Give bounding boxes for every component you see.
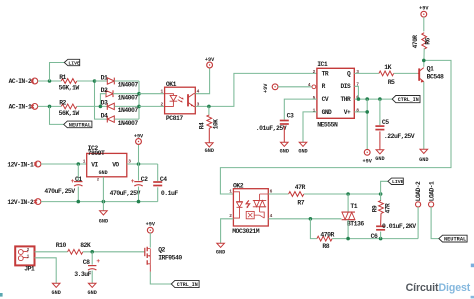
wire 12V-IN-1 to IC2 xyxy=(41,163,87,165)
ic IC1 NE555N xyxy=(317,68,354,118)
wire DIS to THR xyxy=(354,86,358,99)
flag NEUTRAL right xyxy=(439,235,467,242)
wire LOAD-1 to NEUTRAL xyxy=(431,207,439,239)
svg-text:JP1: JP1 xyxy=(24,265,35,272)
wire C8 to GND xyxy=(91,271,93,284)
svg-text:5: 5 xyxy=(313,95,316,101)
svg-text:NE555N: NE555N xyxy=(317,122,338,129)
svg-text:470uF,25V: 470uF,25V xyxy=(110,190,141,197)
ground below C3 xyxy=(281,142,289,146)
svg-text:AC-IN-1: AC-IN-1 xyxy=(9,104,32,111)
svg-text:CTRL_IN: CTRL_IN xyxy=(398,97,419,103)
capacitor C4 xyxy=(157,164,159,181)
capacitor C1 xyxy=(77,164,79,181)
node R4 junction xyxy=(207,105,211,109)
svg-text:3: 3 xyxy=(356,69,359,75)
node LIVE junction xyxy=(48,79,52,83)
svg-text:D2: D2 xyxy=(101,87,108,94)
svg-text:THR: THR xyxy=(340,96,350,103)
wire to +9V xyxy=(138,144,140,164)
flag NEUTRAL xyxy=(64,121,92,128)
wire R5 to Q1 base xyxy=(394,72,418,74)
wire OK2 pin6 to R7 xyxy=(268,193,288,195)
svg-text:+9V: +9V xyxy=(419,5,429,11)
diode D3 xyxy=(107,103,114,109)
svg-text:1: 1 xyxy=(83,159,86,165)
svg-text:C2: C2 xyxy=(141,176,148,183)
svg-text:3.3uF: 3.3uF xyxy=(74,271,91,278)
svg-text:OK1: OK1 xyxy=(166,81,177,88)
wire JP1 pin2 to R10 xyxy=(35,251,68,253)
svg-text:R8: R8 xyxy=(322,243,329,250)
svg-text:1N4007: 1N4007 xyxy=(118,107,139,114)
svg-text:470R: 470R xyxy=(320,232,334,239)
svg-text:1: 1 xyxy=(229,188,232,194)
svg-text:T1: T1 xyxy=(350,203,357,210)
wire junction to R4 xyxy=(208,106,210,114)
wire Q output to R5 xyxy=(354,72,379,74)
node NEUTRAL junction xyxy=(48,105,52,109)
wire C6 to rail xyxy=(380,232,382,239)
supply +9V above IC2 xyxy=(136,139,142,145)
svg-text:C1: C1 xyxy=(75,176,82,183)
wire OK2 pin4 / gate row xyxy=(268,218,341,220)
svg-text:1N4007: 1N4007 xyxy=(118,82,139,89)
svg-text:GND: GND xyxy=(99,170,108,176)
wire D1 cathode to right rail xyxy=(114,80,139,82)
wire LOAD-2 down xyxy=(417,207,419,239)
wire R4 to GND xyxy=(208,128,210,143)
wire down to R8 xyxy=(310,219,316,239)
wire AC-IN-1 to R2 xyxy=(38,105,62,107)
svg-text:VO: VO xyxy=(112,161,119,168)
flag LIVE xyxy=(64,59,79,65)
frame corner mark xyxy=(0,293,3,297)
wire left bridge rail xyxy=(95,81,108,119)
wire to LIVE flag xyxy=(50,63,65,82)
svg-text:+9V: +9V xyxy=(134,133,144,139)
node collector xyxy=(422,59,426,63)
svg-text:MOC3021M: MOC3021M xyxy=(232,228,260,235)
svg-text:1: 1 xyxy=(160,89,163,95)
resistor R6 xyxy=(422,33,427,49)
svg-text:V+: V+ xyxy=(344,109,351,116)
wire R2 to bridge xyxy=(77,105,108,107)
wire bridge to OK1 pin2 xyxy=(139,105,165,107)
svg-text:GND: GND xyxy=(88,290,97,296)
svg-text:R5: R5 xyxy=(388,79,395,86)
triac T1 BT136 xyxy=(342,212,355,220)
opto OK2 MOC3021M xyxy=(233,189,268,226)
ground below IC1 xyxy=(299,142,307,146)
edge mark bottom right xyxy=(471,296,474,299)
svg-text:IC1: IC1 xyxy=(317,61,328,68)
wire to mid ground xyxy=(102,202,104,211)
svg-text:LOAD-1: LOAD-1 xyxy=(428,181,435,201)
svg-text:56K,1W: 56K,1W xyxy=(59,110,80,117)
svg-text:IRF9540: IRF9540 xyxy=(158,254,182,261)
ground below C5 xyxy=(376,150,384,154)
ground below C8 xyxy=(88,283,96,287)
svg-text:NEUTRAL: NEUTRAL xyxy=(69,122,91,128)
wire C3 to GND xyxy=(283,126,285,142)
svg-text:D4: D4 xyxy=(101,112,108,119)
svg-text:470uF,25V: 470uF,25V xyxy=(44,188,75,195)
ground below JP1 xyxy=(52,283,60,287)
wire IC2 GND pin down xyxy=(102,177,104,202)
wire AC-IN-2 to R1 xyxy=(38,80,62,82)
svg-text:10K: 10K xyxy=(212,119,219,129)
resistor R9 xyxy=(380,194,382,200)
wire D3 to right rail xyxy=(114,105,139,107)
svg-text:R9: R9 xyxy=(371,205,378,212)
wire IC1 GND pin xyxy=(303,112,317,142)
svg-text:470R: 470R xyxy=(412,35,419,49)
svg-text:GND: GND xyxy=(99,219,108,225)
svg-text:BC548: BC548 xyxy=(427,74,444,81)
resistor R4 xyxy=(207,115,212,128)
wire emitter to GND xyxy=(423,82,425,150)
svg-text:7809T: 7809T xyxy=(88,150,105,157)
wire bottom rail 12V xyxy=(41,201,158,203)
svg-text:56K,1W: 56K,1W xyxy=(59,85,80,92)
wire Q1 collector to OK2 pin1 xyxy=(220,60,451,194)
wire to LIVE flag xyxy=(381,181,388,194)
wire JP1 pin1 to GND xyxy=(35,258,57,283)
svg-text:C3: C3 xyxy=(287,113,294,120)
svg-text:LOAD-2: LOAD-2 xyxy=(415,181,422,201)
wire V+ to +9V xyxy=(354,111,367,113)
svg-text:TR: TR xyxy=(322,70,329,77)
flag CTRL_IN bottom xyxy=(171,280,199,287)
wire right bridge rail xyxy=(138,81,140,119)
capacitor C6 xyxy=(380,213,382,225)
svg-text:1N4007: 1N4007 xyxy=(118,120,139,127)
svg-text:82K: 82K xyxy=(80,242,91,249)
reset bubble xyxy=(312,85,316,89)
wire OK2 pin2 to GND xyxy=(221,219,234,243)
flag CTRL_IN xyxy=(392,96,420,103)
svg-text:12V-IN-1: 12V-IN-1 xyxy=(7,161,34,168)
ground below Q1 xyxy=(420,149,428,153)
ground below IC2 xyxy=(100,211,108,215)
svg-text:D1: D1 xyxy=(101,74,108,81)
svg-text:2: 2 xyxy=(160,101,163,107)
svg-text:0.1uF: 0.1uF xyxy=(161,190,178,197)
svg-text:47R: 47R xyxy=(385,203,392,213)
supply +9V top right xyxy=(421,11,427,17)
svg-text:47R: 47R xyxy=(295,184,306,191)
wire T1 MT1 xyxy=(347,220,349,239)
ic IC2 7809T xyxy=(87,153,127,176)
wire D1 anode xyxy=(95,80,108,82)
wire OK1 pin4 to +9V xyxy=(195,68,209,94)
svg-text:C6: C6 xyxy=(371,233,378,240)
resistor R5 xyxy=(379,71,394,76)
svg-text:C4: C4 xyxy=(160,176,167,183)
svg-text:DIS: DIS xyxy=(340,83,350,90)
wire THR row to CTRL_IN xyxy=(354,98,392,100)
svg-text:GND: GND xyxy=(322,109,332,116)
svg-text:+9V: +9V xyxy=(205,57,215,63)
svg-text:1K: 1K xyxy=(384,64,391,71)
svg-text:R1: R1 xyxy=(59,74,66,81)
svg-text:GND: GND xyxy=(280,149,289,155)
connector JP1 xyxy=(15,246,34,265)
capacitor C3 xyxy=(280,120,289,122)
wire T1 MT2 xyxy=(347,194,349,212)
wire D4 to right rail xyxy=(114,118,139,120)
svg-text:2: 2 xyxy=(313,69,316,75)
svg-text:Q1: Q1 xyxy=(427,65,434,72)
resistor R7 xyxy=(289,192,304,197)
wire R8 to load rail xyxy=(332,238,418,240)
svg-text:GND: GND xyxy=(298,149,307,155)
svg-text:LIVE: LIVE xyxy=(68,60,80,66)
svg-text:1: 1 xyxy=(27,253,30,259)
wire R1 to bridge xyxy=(77,80,95,82)
supply +9V below IC1 xyxy=(364,149,370,155)
supply +9V to reset pin xyxy=(272,84,278,90)
capacitor C8 xyxy=(91,252,93,265)
svg-text:AC-IN-2: AC-IN-2 xyxy=(9,78,32,85)
svg-text:R7: R7 xyxy=(297,200,304,207)
svg-text:PC817: PC817 xyxy=(166,115,183,122)
wire R7 to LIVE rail xyxy=(304,193,381,195)
svg-text:0.01uF,2KV: 0.01uF,2KV xyxy=(382,223,416,230)
svg-text:BT136: BT136 xyxy=(347,221,364,228)
supply +9V for Q2 xyxy=(147,227,153,233)
diode D4 xyxy=(107,116,114,122)
svg-text:12V-IN-2: 12V-IN-2 xyxy=(7,199,34,206)
capacitor C5 xyxy=(379,99,381,125)
svg-text:C5: C5 xyxy=(382,119,389,126)
svg-text:+9V: +9V xyxy=(363,159,373,165)
svg-text:GND: GND xyxy=(419,157,428,163)
wire R10 to Q2 gate xyxy=(83,251,145,253)
svg-text:LIVE: LIVE xyxy=(392,179,404,185)
svg-text:OK2: OK2 xyxy=(233,182,244,189)
capacitor C2 xyxy=(138,164,140,181)
wire R6 to collector node xyxy=(423,48,425,67)
edge mark right xyxy=(471,264,474,268)
wire D2 branch xyxy=(100,94,106,107)
svg-text:2: 2 xyxy=(27,247,30,253)
svg-text:1N4007: 1N4007 xyxy=(118,94,139,101)
resistor R10 xyxy=(68,249,83,254)
svg-text:VI: VI xyxy=(91,161,98,168)
wire to NEUTRAL flag xyxy=(50,106,64,124)
transistor Q2 IRF9540 xyxy=(144,248,146,256)
wire +9V to R6 xyxy=(423,17,425,32)
svg-text:GND: GND xyxy=(205,148,214,154)
svg-text:GND: GND xyxy=(375,156,384,162)
svg-text:Q2: Q2 xyxy=(158,246,165,253)
svg-text:R2: R2 xyxy=(59,99,66,106)
svg-text:NEUTRAL: NEUTRAL xyxy=(444,237,466,243)
wire D2 cathode xyxy=(113,93,139,95)
svg-text:GND: GND xyxy=(52,290,61,296)
svg-text:CV: CV xyxy=(322,96,329,103)
svg-text:.22uF,25V: .22uF,25V xyxy=(384,133,415,140)
svg-text:R6: R6 xyxy=(425,37,432,44)
wire Q2 drain to CTRL_IN xyxy=(149,264,151,272)
svg-text:CTRL_IN: CTRL_IN xyxy=(177,282,198,288)
supply +9V at OK1 xyxy=(207,62,213,68)
svg-text:R4: R4 xyxy=(199,122,206,129)
opto OK1 PC817 xyxy=(165,87,196,114)
wire C5 to GND xyxy=(379,131,381,149)
svg-text:D3: D3 xyxy=(101,100,108,107)
wire CV pin to C3 xyxy=(284,99,317,120)
ground below OK2 xyxy=(217,243,225,247)
wire IC2 out rail xyxy=(127,163,158,165)
ground below R4 xyxy=(206,143,214,147)
svg-text:CírcuitDigest: CírcuitDigest xyxy=(406,282,471,294)
wire +9V to Q2 source xyxy=(149,233,151,248)
flag LIVE right xyxy=(388,178,403,184)
transistor Q1 BC548 xyxy=(418,68,420,80)
wire OK1 pin3 to IC1 TR xyxy=(195,73,317,106)
resistor R2 xyxy=(61,104,76,109)
svg-text:+9V: +9V xyxy=(263,83,269,93)
svg-text:GND: GND xyxy=(216,249,225,255)
svg-text:+9V: +9V xyxy=(146,221,156,227)
wire +9V to R pin xyxy=(278,86,312,88)
diode D1 xyxy=(107,78,114,84)
diode D2 xyxy=(106,91,113,97)
svg-text:C8: C8 xyxy=(83,259,90,266)
resistor R8 xyxy=(317,236,332,241)
svg-text:1: 1 xyxy=(313,108,316,114)
resistor R1 xyxy=(61,79,76,84)
svg-text:R10: R10 xyxy=(56,242,67,249)
wire bridge to OK1 pin1 xyxy=(139,93,165,95)
svg-text:.01uF,25V: .01uF,25V xyxy=(256,125,287,132)
